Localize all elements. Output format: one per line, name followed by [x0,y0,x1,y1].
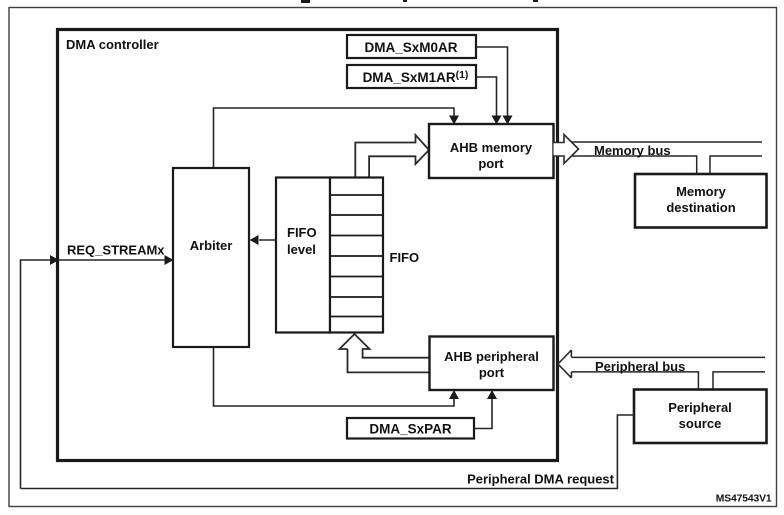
register DMA_SxPAR [347,418,474,439]
register DMA_SxM1AR [347,65,476,88]
svg-text:REQ_STREAMx: REQ_STREAMx [67,243,165,258]
svg-text:DMA controller: DMA controller [66,37,159,52]
bus arrow peripheral bus to AHB peripheral port [558,350,571,378]
arrowhead into AHB memory port top (from Arbiter) [449,116,459,125]
wire Arbiter bottom to AHB peripheral port [214,347,455,406]
arrowhead into Arbiter [165,255,174,265]
svg-text:Peripheral: Peripheral [668,400,732,415]
svg-text:Peripheral bus: Peripheral bus [595,359,685,374]
svg-text:AHB memory: AHB memory [450,140,533,155]
svg-text:port: port [479,365,505,380]
svg-text:FIFO: FIFO [390,250,420,265]
svg-text:Peripheral DMA request: Peripheral DMA request [467,472,615,487]
svg-text:DMA_SxM1AR(1): DMA_SxM1AR(1) [363,69,469,85]
svg-text:level: level [287,242,316,257]
hollow elbow arrow AHB peripheral port to FIFO [340,334,430,372]
block Peripheral source [634,390,767,444]
DMA controller box [58,30,558,461]
block Arbiter [173,168,249,347]
memory bus lines [570,142,762,173]
arrowhead into AHB peripheral port bottom (from Arbiter) [449,390,459,399]
wire REQ_STREAMx (left entry) [21,260,171,489]
wire DMA_SxM0AR to AHB memory port [476,47,508,121]
arrow FIFO level to Arbiter [259,239,276,241]
svg-text:source: source [679,416,722,431]
block FIFO level [276,178,330,333]
wire DMA_SxPAR to AHB peripheral port [474,394,492,429]
arrowhead into AHB peripheral port bottom (from SxPAR) [487,390,497,399]
svg-text:AHB peripheral: AHB peripheral [444,349,539,364]
wire DMA_SxM1AR to AHB memory port [476,77,497,121]
block Memory destination [635,174,767,228]
block AHB memory port [429,124,554,178]
svg-text:FIFO: FIFO [287,225,317,240]
wire peripheral DMA request [21,415,635,489]
cropped caption text remnants at top edge [301,0,538,3]
arrowhead into AHB memory port top (from SxM0AR) [503,116,513,125]
register DMA_SxM0AR [347,35,476,58]
svg-text:destination: destination [666,200,735,215]
arrowhead into Arbiter right edge [250,235,259,245]
svg-text:MS47543V1: MS47543V1 [716,494,772,505]
svg-text:DMA_SxPAR: DMA_SxPAR [369,422,452,437]
arrowhead into AHB memory port top (from SxM1AR) [492,116,502,125]
peripheral bus lines [570,357,765,389]
svg-text:DMA_SxM0AR: DMA_SxM0AR [364,40,457,55]
svg-text:port: port [478,156,504,171]
svg-text:Arbiter: Arbiter [190,238,233,253]
svg-text:Memory: Memory [676,184,727,199]
svg-text:Memory bus: Memory bus [594,143,671,158]
arrowhead at DMA box border [50,255,59,265]
wire Arbiter top to AHB memory port [214,108,455,168]
FIFO stack [330,178,383,333]
bus arrow AHB memory port to memory bus [554,135,579,164]
hollow elbow arrow FIFO to AHB memory port [355,135,429,177]
block AHB peripheral port [430,337,554,391]
